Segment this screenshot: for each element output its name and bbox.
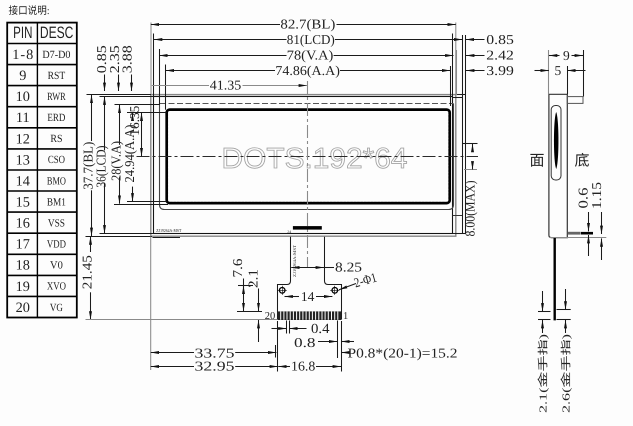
- leader 3.88 top-left: [120, 45, 135, 91]
- callout 2.6 gold finger: [557, 289, 573, 413]
- svg-text:18: 18: [16, 258, 30, 274]
- dimension 8.00(MAX) right: [463, 144, 478, 237]
- svg-text:41.35: 41.35: [210, 78, 242, 93]
- svg-text:1-8: 1-8: [12, 47, 33, 63]
- svg-text:14: 14: [16, 173, 30, 189]
- label 2-phi1: [339, 270, 378, 291]
- svg-text:BM1: BM1: [47, 196, 66, 208]
- dimension 0.4: [272, 322, 330, 337]
- dimension 32.95: [151, 359, 278, 374]
- svg-text:81(LCD): 81(LCD): [287, 32, 335, 47]
- right long extension line 1: [462, 35, 464, 234]
- svg-text:VSS: VSS: [48, 218, 65, 230]
- svg-text:VG: VG: [50, 302, 63, 314]
- svg-text:RS: RS: [50, 133, 62, 145]
- svg-text:ERD: ERD: [47, 112, 65, 124]
- svg-text:16.8: 16.8: [291, 359, 316, 374]
- svg-text:19: 19: [16, 279, 30, 295]
- dimension 36(LCD) vertical: [94, 97, 109, 234]
- dimension 81(LCD): [154, 32, 514, 47]
- dimension 16.35 vertical: [127, 105, 142, 156]
- svg-text:82.7(BL): 82.7(BL): [280, 16, 335, 31]
- side view body: [549, 94, 567, 237]
- svg-text:5: 5: [555, 63, 562, 78]
- dimension 0.8: [294, 335, 354, 350]
- svg-text:2.42: 2.42: [486, 47, 514, 62]
- side view top tab: [567, 97, 583, 104]
- side view black bar: [581, 232, 593, 235]
- connector black bar on pcb bottom: [293, 226, 322, 230]
- svg-text:11: 11: [16, 110, 30, 126]
- dimension 9 side: [549, 48, 584, 97]
- side view bottom ext line: [549, 237, 606, 239]
- svg-text:XVO: XVO: [47, 281, 66, 293]
- dimension 14: [285, 289, 333, 304]
- svg-text:9: 9: [563, 48, 570, 63]
- left extension lines horizontal: [86, 95, 169, 237]
- svg-text:1.15: 1.15: [589, 182, 604, 209]
- svg-text:0.8: 0.8: [294, 335, 316, 350]
- dimension 28(V.A) vertical: [109, 105, 124, 204]
- dimension 24.94(A.A) vertical: [122, 113, 137, 202]
- svg-text:36(LCD): 36(LCD): [94, 146, 109, 188]
- svg-text:2.1(金手指): 2.1(金手指): [538, 333, 550, 413]
- side view inner slot: [551, 106, 561, 181]
- svg-text:PIN: PIN: [13, 24, 32, 42]
- connector plate bottom: [278, 319, 341, 321]
- svg-text:8.00(MAX): 8.00(MAX): [463, 181, 478, 237]
- svg-text:接口说明:: 接口说明:: [9, 5, 50, 17]
- svg-text:底: 底: [575, 153, 590, 170]
- svg-text:面: 面: [530, 154, 545, 170]
- svg-text:2.1: 2.1: [245, 269, 260, 288]
- svg-text:78(V.A): 78(V.A): [287, 47, 334, 62]
- top extension lines left: [151, 23, 166, 110]
- svg-text:VDD: VDD: [47, 239, 66, 251]
- dimension 5 side: [535, 63, 586, 78]
- A.A inner dotted edge: [169, 112, 448, 202]
- svg-text:1: 1: [343, 311, 348, 322]
- side view tail line: [554, 238, 556, 320]
- extension lines tail left: [237, 286, 262, 312]
- svg-text:V0: V0: [50, 260, 63, 272]
- gold finger row: [278, 311, 342, 319]
- svg-text:20: 20: [16, 300, 30, 316]
- pcb line right: [453, 215, 463, 217]
- dimension 21.45 vertical: [79, 236, 94, 319]
- svg-text:3.88: 3.88: [120, 45, 135, 73]
- svg-text:D7-D0: D7-D0: [42, 49, 71, 61]
- svg-text:BMO: BMO: [47, 175, 66, 187]
- V.A frame sides and bottom: [160, 104, 454, 210]
- svg-text:32.95: 32.95: [195, 359, 235, 374]
- dimension 74.86(A.A): [166, 63, 514, 78]
- svg-text:RWR: RWR: [47, 91, 66, 103]
- tail neck left outline: [278, 237, 291, 320]
- dimension 8.25: [291, 260, 362, 275]
- bottom-left step line: [153, 237, 181, 239]
- label P0.8*(20-1)=15.2: [341, 345, 457, 360]
- backlight outline rect BL: [151, 95, 456, 237]
- dimension 82.7(BL): [151, 16, 456, 31]
- top extension lines right: [451, 23, 457, 107]
- dimension 2.1 vertical: [245, 269, 260, 342]
- dimension 0.6 side: [576, 187, 591, 256]
- dimension 37.7(BL) vertical: [81, 95, 96, 236]
- extension verticals bottom: [151, 237, 342, 372]
- svg-text:16: 16: [16, 216, 30, 232]
- svg-text:CSO: CSO: [48, 154, 65, 166]
- svg-text:16.35: 16.35: [127, 105, 142, 135]
- dimension 41.35: [152, 78, 307, 93]
- svg-text:20: 20: [265, 311, 276, 322]
- svg-text:14: 14: [301, 289, 315, 304]
- svg-text:21.45: 21.45: [79, 255, 94, 289]
- leader 0.85 top-left: [94, 45, 109, 91]
- svg-text:8.25: 8.25: [335, 260, 362, 275]
- svg-text:DOTS.192*64: DOTS.192*64: [222, 143, 408, 175]
- horizontal centerline: [137, 156, 479, 158]
- svg-text:ZJ19264A-MST: ZJ19264A-MST: [156, 228, 181, 233]
- module top edge right extensions: [456, 94, 466, 96]
- svg-text:7.6: 7.6: [230, 258, 245, 277]
- svg-text:2.6(金手指): 2.6(金手指): [560, 333, 572, 413]
- svg-text:12: 12: [16, 131, 30, 147]
- mounting hole right: [330, 286, 339, 295]
- dimension 1.15 side: [589, 182, 604, 260]
- svg-text:13: 13: [16, 152, 30, 168]
- svg-text:RST: RST: [48, 70, 66, 82]
- svg-text:17: 17: [16, 237, 30, 253]
- side view gold tab hatched: [568, 232, 580, 235]
- svg-text:10: 10: [16, 89, 30, 105]
- svg-text:24: 24: [287, 230, 291, 234]
- svg-text:74.86(A.A): 74.86(A.A): [275, 63, 340, 78]
- svg-text:15: 15: [16, 195, 30, 211]
- dimension 16.8: [278, 359, 341, 374]
- module bottom edge right extension: [453, 233, 466, 235]
- mounting hole left: [278, 286, 287, 295]
- A.A thick border rect: [167, 110, 450, 204]
- svg-text:3.99: 3.99: [486, 63, 514, 78]
- svg-text:9: 9: [19, 68, 26, 84]
- svg-text:ZJ19264A-MST: ZJ19264A-MST: [292, 244, 297, 277]
- tail neck right outline: [325, 237, 342, 320]
- svg-text:P0.8*(20-1)=15.2: P0.8*(20-1)=15.2: [348, 345, 458, 360]
- svg-text:DESC: DESC: [40, 24, 74, 42]
- V.A frame dashed top edge: [160, 103, 453, 105]
- dimension 33.75: [151, 345, 277, 360]
- callout 2.1 gold finger: [538, 291, 551, 413]
- LCD glass rect: [154, 97, 453, 234]
- long extension line fingers bottom: [86, 319, 278, 321]
- dimension 7.6 vertical: [230, 258, 245, 311]
- pin description table: [7, 23, 77, 318]
- side view lens shape: [554, 112, 559, 169]
- vertical centerline: [307, 81, 309, 267]
- leader 2.35 top-left: [107, 45, 122, 91]
- right long extension line 2: [465, 35, 467, 234]
- dimension 78(V.A): [159, 47, 514, 62]
- svg-text:0.85: 0.85: [486, 32, 514, 47]
